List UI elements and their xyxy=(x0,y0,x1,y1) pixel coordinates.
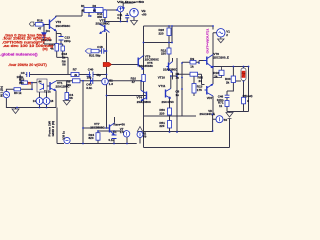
svg-text:C40: C40 xyxy=(88,68,94,72)
wire x177 long vertical xyxy=(176,58,178,132)
svg-text:220: 220 xyxy=(159,32,164,36)
resistor R19 xyxy=(35,23,43,27)
svg-text:18: 18 xyxy=(50,99,53,103)
svg-text:56: 56 xyxy=(62,63,66,67)
wire VT2 collector xyxy=(55,16,57,17)
wire V9 stubs xyxy=(139,131,141,144)
svg-text:2k: 2k xyxy=(226,80,230,84)
svg-text:82: 82 xyxy=(82,8,86,12)
ground VB xyxy=(131,21,138,26)
wire C18 row xyxy=(91,50,107,52)
wire R17 R18 to lower node xyxy=(57,44,68,75)
wire red comp col xyxy=(236,67,244,112)
svg-text:VT10: VT10 xyxy=(158,75,166,79)
resistor R17 xyxy=(55,44,59,52)
port OUT red xyxy=(103,62,111,66)
wire VT2 emitter xyxy=(44,31,63,44)
wire VT7 collector xyxy=(114,117,116,123)
wire x32 riser xyxy=(28,83,38,90)
svg-text:44p: 44p xyxy=(96,73,101,77)
svg-text:50: 50 xyxy=(224,118,228,122)
resistor rail R21 xyxy=(95,8,103,13)
wire VT7 base row xyxy=(83,127,110,129)
svg-text:820: 820 xyxy=(89,136,94,140)
svg-text:2SA1380C: 2SA1380C xyxy=(137,100,152,104)
wire box top edge xyxy=(144,25,214,27)
wire driver row y63 xyxy=(182,61,204,63)
svg-text:1u: 1u xyxy=(175,93,179,97)
source V1 xyxy=(217,29,225,37)
subckt box J1 xyxy=(37,79,47,92)
svg-text:10p: 10p xyxy=(87,76,92,80)
ground R4 xyxy=(63,101,70,106)
svg-text:+50: +50 xyxy=(141,12,146,16)
svg-text:2k: 2k xyxy=(214,74,218,78)
wire VT4 emitters xyxy=(141,101,170,132)
resistor R7 xyxy=(71,73,79,77)
svg-text:2SA1380C: 2SA1380C xyxy=(96,22,111,26)
svg-text:156: 156 xyxy=(19,81,24,85)
svg-text:R3 1k: R3 1k xyxy=(14,91,22,95)
wire gnd stub left xyxy=(15,108,17,110)
svg-text:VB Rsre=50: VB Rsre=50 xyxy=(117,0,145,4)
wire R10 column xyxy=(143,73,145,75)
wire VT9 stubs xyxy=(143,42,145,44)
svg-text:VT11: VT11 xyxy=(158,84,165,88)
current source I4 xyxy=(36,98,43,105)
wire R11 down to VT3 xyxy=(105,17,127,24)
svg-text:VD7: VD7 xyxy=(207,96,213,100)
svg-text:R9: R9 xyxy=(190,57,194,61)
resistor R51 xyxy=(168,121,172,129)
svg-text:1.3: 1.3 xyxy=(109,82,114,86)
subckt J1 symbol xyxy=(40,83,44,90)
capacitor C18 xyxy=(102,48,104,54)
current source I10 xyxy=(118,6,124,12)
resistor R50 xyxy=(168,108,172,115)
wire box right edge xyxy=(229,119,231,148)
ground input xyxy=(12,109,19,114)
wire C3 R7 C40 row xyxy=(30,74,107,76)
resistor R8 xyxy=(73,79,81,83)
wire x182 vertical xyxy=(181,63,183,117)
svg-text:V10 1u: V10 1u xyxy=(61,131,65,140)
svg-text:V9: V9 xyxy=(143,135,147,139)
capacitor 43p xyxy=(87,75,92,77)
wire box left edge full xyxy=(143,26,145,116)
svg-text:175: 175 xyxy=(197,88,202,92)
capacitor C1 xyxy=(112,135,117,139)
svg-text:.global nuisance(): .global nuisance() xyxy=(0,52,37,56)
transistor VT4 xyxy=(141,90,147,101)
svg-text:Force 1W: Force 1W xyxy=(48,120,52,136)
wire x172 xyxy=(171,26,173,43)
port arrow V9 xyxy=(137,127,142,132)
svg-text:OUT=V(OUT)1: OUT=V(OUT)1 xyxy=(206,28,210,53)
svg-text:2k: 2k xyxy=(74,73,77,77)
resistor R12 xyxy=(167,48,171,54)
current source I11 xyxy=(102,78,109,85)
svg-text:47: 47 xyxy=(132,80,136,84)
svg-text:47: 47 xyxy=(38,26,42,30)
capacitor C3 xyxy=(27,72,30,77)
source V9 xyxy=(137,131,143,137)
ground V1 xyxy=(218,37,224,43)
wire VT1 base link xyxy=(47,85,50,87)
resistor R9 driver xyxy=(190,60,196,64)
svg-text:C1: C1 xyxy=(113,130,117,134)
wire C3 left drop xyxy=(20,75,27,83)
wire VT4 collectors xyxy=(141,76,177,90)
svg-text:2SC3200_E: 2SC3200_E xyxy=(213,56,229,60)
transistor VT7 xyxy=(110,123,115,135)
svg-text:62: 62 xyxy=(93,8,97,12)
resistor R4 xyxy=(65,93,69,100)
transistor VT11 xyxy=(166,89,171,99)
wire R12 column xyxy=(168,36,170,63)
svg-text:2SC4793: 2SC4793 xyxy=(162,100,174,104)
svg-text:2SC3503C: 2SC3503C xyxy=(90,126,105,130)
svg-text:D4: D4 xyxy=(46,29,50,33)
svg-text:.four 20kHz 20 v(OUT): .four 20kHz 20 v(OUT) xyxy=(8,63,47,67)
wire bottom rail left xyxy=(57,143,137,145)
svg-text:0.1u: 0.1u xyxy=(109,138,115,142)
svg-text:(m): (m) xyxy=(43,47,48,51)
resistor R24 xyxy=(96,133,100,141)
svg-text:0.1: 0.1 xyxy=(117,16,121,20)
wire lower output transistor xyxy=(213,96,216,132)
wire y132 row xyxy=(144,131,213,133)
svg-text:1k: 1k xyxy=(190,64,194,68)
wire driver row y72 xyxy=(177,74,205,84)
red component fuse xyxy=(241,68,246,81)
svg-text:2SC3503C: 2SC3503C xyxy=(56,24,72,28)
wire VT1 emitter xyxy=(55,91,57,108)
current source I8 xyxy=(43,98,50,105)
transistor VTD lower output xyxy=(205,84,214,96)
resistor R1 xyxy=(14,88,21,91)
wire right edge long xyxy=(248,67,250,112)
wire box bottom edge xyxy=(144,147,230,149)
source V8 lower right xyxy=(216,116,223,123)
svg-text:R21 56p: R21 56p xyxy=(89,53,101,57)
capacitor C43 xyxy=(91,78,93,84)
capacitor C11 polarized xyxy=(122,6,129,17)
source VB xyxy=(130,8,139,17)
resistor R5 load xyxy=(242,97,246,104)
wire mid row y42.5 xyxy=(144,42,173,44)
wire y99 row xyxy=(107,95,147,97)
svg-text:C18: C18 xyxy=(97,45,103,49)
resistor R13 xyxy=(192,84,196,94)
wire V1 drop xyxy=(213,26,217,58)
capacitor C13 xyxy=(59,37,64,41)
wire x113 vertical xyxy=(106,96,108,129)
transistor VT3 xyxy=(100,24,110,34)
resistor R22 driver low xyxy=(190,72,198,76)
svg-text:14: 14 xyxy=(33,99,36,103)
transistor VT9 xyxy=(138,56,143,70)
transistor VT1 xyxy=(50,81,56,91)
port IN1 arrow xyxy=(29,22,34,26)
red directive block xyxy=(0,33,53,67)
svg-text:24: 24 xyxy=(199,79,203,83)
transistor VT6 xyxy=(204,55,214,69)
resistor R16 xyxy=(219,70,224,75)
wire input port to VT2 base xyxy=(34,23,50,25)
svg-text:2SA1943_E: 2SA1943_E xyxy=(200,112,216,116)
svg-text:IN 1 (2k): IN 1 (2k) xyxy=(0,86,4,97)
source V10 xyxy=(64,137,70,143)
wire input gnd return xyxy=(6,98,56,108)
diode D4 xyxy=(42,33,46,38)
wire right bottom rail xyxy=(227,112,249,113)
svg-text:220: 220 xyxy=(161,52,166,56)
svg-text:VT4: VT4 xyxy=(137,95,143,99)
capacitor C46 xyxy=(225,95,230,97)
resistor R18 xyxy=(61,46,65,51)
wire VT6 collector-emitter xyxy=(213,58,249,84)
wire box left edge xyxy=(143,116,145,148)
wire top rail xyxy=(56,3,124,22)
resistor R71 xyxy=(225,101,229,107)
wire VB stub xyxy=(133,17,135,21)
svg-text:R5(out): R5(out) xyxy=(243,94,253,98)
resistor R15 xyxy=(22,81,28,84)
source IN xyxy=(3,91,9,97)
resistor rail R20 xyxy=(84,8,94,13)
transistor VT5 xyxy=(167,62,173,73)
resistor R30 xyxy=(231,76,235,83)
svg-text:T1 1k: T1 1k xyxy=(44,90,51,94)
source V7 xyxy=(123,131,129,137)
svg-text:GND 2 (0): GND 2 (0) xyxy=(51,121,55,137)
svg-text:1.0: 1.0 xyxy=(120,130,124,134)
svg-text:1u: 1u xyxy=(176,76,180,80)
svg-text:R7: R7 xyxy=(73,68,77,72)
resistor R10 xyxy=(142,75,146,82)
capacitor C40 xyxy=(90,72,94,78)
svg-text:2SA1380C: 2SA1380C xyxy=(163,68,178,72)
wire x83 vertical xyxy=(82,81,84,144)
svg-text:2SC3503C: 2SC3503C xyxy=(139,64,154,68)
svg-text:220: 220 xyxy=(159,112,164,116)
wire R13 column xyxy=(193,74,195,96)
svg-text:220p: 220p xyxy=(64,39,71,43)
svg-text:R19: R19 xyxy=(37,18,43,22)
resistor R11 vertical xyxy=(103,10,106,17)
wire D4 branch xyxy=(43,25,45,44)
transistor VT2 xyxy=(50,17,57,32)
svg-text:11: 11 xyxy=(219,104,223,108)
wire x57 vertical xyxy=(56,108,58,144)
port FB arrow xyxy=(85,49,91,53)
wire right col A xyxy=(227,67,233,112)
wire C11 branch xyxy=(123,3,133,22)
wire y116 row xyxy=(144,115,197,117)
wire VT5 stubs xyxy=(172,58,174,80)
svg-text:3.3n: 3.3n xyxy=(86,86,92,90)
wire OUT net xyxy=(112,64,139,66)
wire VT3 emitter down xyxy=(106,33,108,96)
svg-text:22k: 22k xyxy=(66,83,71,87)
svg-text:220: 220 xyxy=(159,124,164,128)
resistor R26 box top xyxy=(167,28,171,36)
wire VT11 stubs xyxy=(170,76,171,108)
wire upper bias row y80.8 xyxy=(56,80,144,82)
wire I pair stubs xyxy=(40,92,47,108)
wire R4 column xyxy=(66,81,68,101)
svg-text:56: 56 xyxy=(69,96,73,100)
wire VT7 cluster xyxy=(98,131,137,144)
ground right xyxy=(226,113,233,119)
resistor R21 inline xyxy=(91,49,99,53)
wire input source xyxy=(6,89,32,91)
